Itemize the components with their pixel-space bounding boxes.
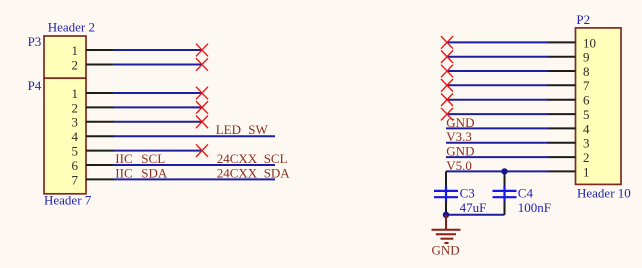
svg-text:1: 1 (583, 164, 590, 179)
svg-text:6: 6 (583, 93, 590, 108)
svg-text:9: 9 (583, 50, 590, 65)
svg-text:SDA: SDA (141, 165, 168, 180)
svg-text:P4: P4 (28, 78, 42, 93)
svg-text:5: 5 (583, 107, 590, 122)
svg-text:1: 1 (72, 86, 79, 101)
svg-text:GND: GND (446, 144, 474, 159)
svg-text:V5.0: V5.0 (446, 158, 472, 173)
svg-text:4: 4 (583, 121, 590, 136)
svg-text:SCL: SCL (264, 151, 288, 166)
svg-text:GND: GND (432, 242, 460, 257)
svg-text:P2: P2 (576, 12, 590, 27)
svg-text:47uF: 47uF (460, 200, 487, 215)
svg-text:7: 7 (72, 172, 79, 187)
svg-text:5: 5 (72, 144, 79, 159)
svg-text:100nF: 100nF (518, 200, 551, 215)
svg-text:3: 3 (583, 136, 590, 151)
svg-text:SCL: SCL (141, 151, 165, 166)
svg-text:24CXX: 24CXX (217, 151, 258, 166)
svg-text:Header 7: Header 7 (44, 193, 92, 208)
svg-text:GND: GND (446, 115, 474, 130)
svg-text:24CXX: 24CXX (217, 165, 258, 180)
svg-text:Header 2: Header 2 (48, 20, 95, 35)
svg-text:LED: LED (216, 122, 241, 137)
svg-text:4: 4 (72, 129, 79, 144)
svg-text:Header 10: Header 10 (577, 186, 631, 201)
svg-text:SW: SW (248, 122, 268, 137)
svg-text:C4: C4 (518, 186, 534, 201)
svg-text:C3: C3 (460, 186, 475, 201)
svg-text:1: 1 (72, 43, 79, 58)
svg-text:IIC: IIC (115, 151, 132, 166)
svg-text:V3.3: V3.3 (446, 129, 472, 144)
svg-text:IIC: IIC (115, 165, 132, 180)
svg-text:6: 6 (72, 158, 79, 173)
svg-text:2: 2 (583, 150, 590, 165)
svg-text:2: 2 (72, 57, 79, 72)
svg-text:10: 10 (583, 35, 596, 50)
svg-text:2: 2 (72, 100, 79, 115)
svg-text:7: 7 (583, 78, 590, 93)
svg-text:8: 8 (583, 64, 590, 79)
svg-text:SDA: SDA (264, 165, 291, 180)
svg-text:P3: P3 (28, 34, 42, 49)
svg-text:3: 3 (72, 115, 79, 130)
